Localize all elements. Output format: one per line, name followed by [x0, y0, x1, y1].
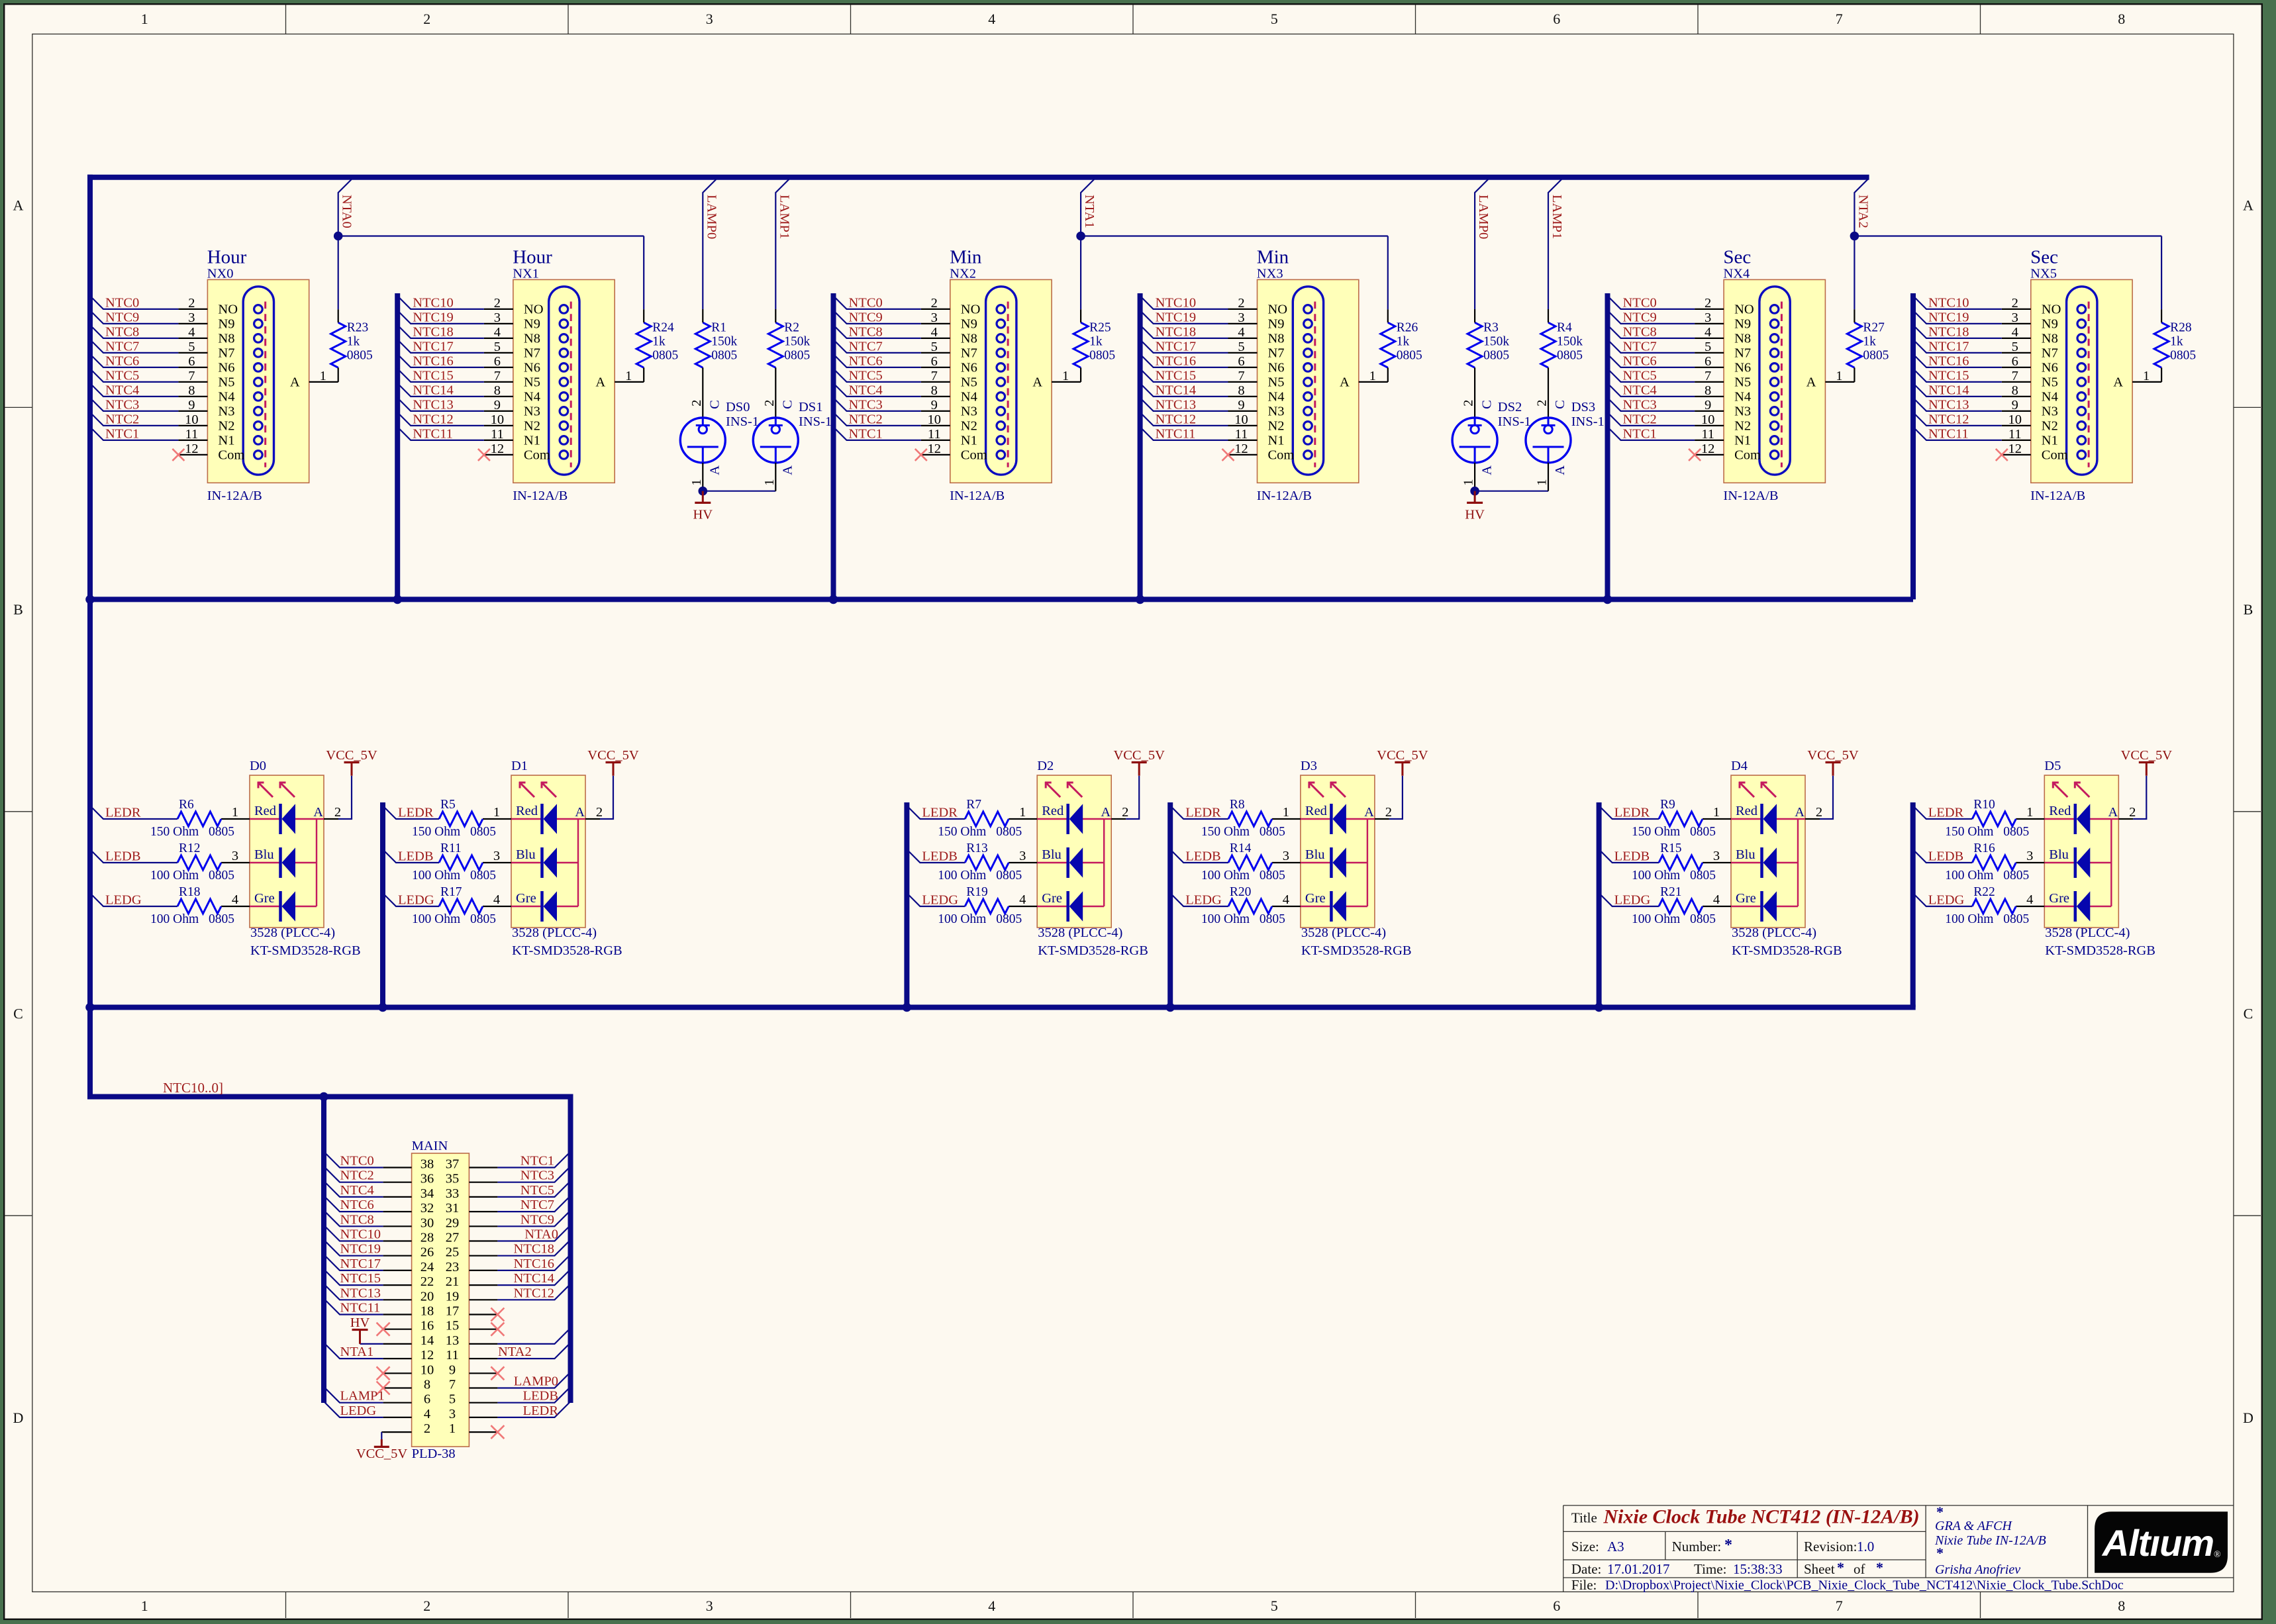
wire MAIN right: [497, 1328, 570, 1344]
wire MAIN left: [324, 1387, 383, 1403]
wire MAIN left: [324, 1152, 383, 1168]
svg-text:100 Ohm: 100 Ohm: [938, 869, 986, 883]
junction: [1603, 595, 1612, 604]
svg-text:NTC12: NTC12: [1156, 412, 1197, 426]
resistor R5 150 Ohm 0805: [412, 798, 496, 839]
svg-text:16: 16: [421, 1319, 434, 1333]
neon lamp DS2 INS-1: [1452, 400, 1531, 491]
svg-text:IN-12A/B: IN-12A/B: [513, 489, 568, 503]
wires bus fan to D1 resistors: [383, 806, 439, 906]
svg-text:R10: R10: [1973, 798, 1995, 812]
svg-text:LAMP1: LAMP1: [1550, 195, 1564, 239]
wire MAIN left: [324, 1255, 383, 1270]
svg-text:9: 9: [494, 398, 501, 412]
svg-text:PLD-38: PLD-38: [412, 1447, 456, 1461]
svg-text:0805: 0805: [2003, 869, 2029, 883]
svg-text:0805: 0805: [209, 912, 234, 926]
svg-text:N1: N1: [1268, 434, 1285, 448]
svg-text:NTC6: NTC6: [105, 354, 139, 368]
svg-text:3: 3: [188, 310, 195, 325]
svg-text:NTA2: NTA2: [498, 1345, 532, 1359]
title block lines: [1563, 1505, 2234, 1592]
svg-text:7: 7: [188, 369, 195, 383]
svg-text:1: 1: [1369, 369, 1376, 383]
svg-text:6: 6: [494, 354, 501, 369]
svg-text:N6: N6: [1734, 361, 1751, 375]
svg-text:3: 3: [706, 11, 713, 27]
svg-text:4: 4: [931, 325, 938, 340]
resistor R7 150 Ohm 0805: [938, 798, 1022, 839]
svg-text:IN-12A/B: IN-12A/B: [950, 489, 1005, 503]
wire MAIN right: [497, 1387, 570, 1403]
svg-text:NO: NO: [1734, 303, 1754, 317]
svg-text:2: 2: [931, 296, 938, 310]
svg-text:N7: N7: [218, 346, 234, 361]
junction: [829, 595, 838, 604]
svg-text:3528 (PLCC-4): 3528 (PLCC-4): [512, 926, 597, 940]
svg-text:100 Ohm: 100 Ohm: [938, 912, 986, 926]
resistor R19 100 Ohm 0805: [938, 885, 1022, 926]
wires bus fan to NX3: [1140, 296, 1228, 440]
svg-text:N9: N9: [218, 317, 234, 332]
svg-text:NTC6: NTC6: [849, 354, 883, 368]
svg-text:NTC0: NTC0: [340, 1154, 374, 1169]
svg-text:12: 12: [491, 442, 505, 456]
svg-text:VCC_5V: VCC_5V: [587, 748, 639, 763]
svg-text:1: 1: [141, 1598, 148, 1614]
svg-text:INS-1: INS-1: [1571, 414, 1605, 429]
svg-text:1: 1: [689, 479, 704, 485]
wire LAMP0 from top bus: [1475, 179, 1488, 309]
svg-text:NTC5: NTC5: [520, 1183, 554, 1198]
junction lamp anode: [1470, 487, 1479, 496]
svg-text:2: 2: [1122, 805, 1128, 820]
svg-text:34: 34: [421, 1186, 434, 1201]
svg-text:HV: HV: [350, 1315, 370, 1330]
svg-text:100 Ohm: 100 Ohm: [150, 912, 199, 926]
svg-text:Sec: Sec: [2030, 246, 2058, 267]
svg-text:9: 9: [931, 398, 938, 412]
svg-text:NTC0: NTC0: [849, 295, 883, 310]
svg-text:®: ®: [2214, 1550, 2221, 1560]
svg-text:150 Ohm: 150 Ohm: [1632, 825, 1680, 839]
svg-text:9: 9: [188, 398, 195, 412]
svg-text:LEDB: LEDB: [1928, 849, 1964, 864]
svg-text:LEDG: LEDG: [922, 893, 958, 908]
svg-text:NTC19: NTC19: [413, 310, 454, 324]
junction C/left: [85, 1003, 95, 1012]
wire anode to VCC_5V: [1820, 776, 1833, 819]
svg-text:5: 5: [1238, 340, 1244, 354]
svg-text:3: 3: [2012, 310, 2018, 325]
svg-text:Red: Red: [516, 804, 538, 818]
svg-text:Revision:: Revision:: [1804, 1539, 1857, 1554]
svg-text:NTC6: NTC6: [1623, 354, 1657, 368]
svg-text:R27: R27: [1863, 321, 1885, 335]
svg-text:A: A: [575, 805, 585, 820]
svg-text:0805: 0805: [996, 869, 1022, 883]
svg-text:NO: NO: [2042, 303, 2061, 317]
svg-text:NTC7: NTC7: [1623, 339, 1657, 354]
svg-text:11: 11: [446, 1348, 459, 1362]
svg-text:A3: A3: [1607, 1539, 1624, 1554]
wire NTA0 vertical + diagonal to top bus: [338, 179, 352, 309]
svg-text:Sheet: Sheet: [1804, 1561, 1835, 1577]
svg-text:R24: R24: [652, 321, 674, 335]
svg-text:NTC1: NTC1: [520, 1154, 554, 1169]
svg-text:Title: Title: [1571, 1509, 1597, 1525]
svg-text:9: 9: [1705, 398, 1711, 412]
svg-text:2: 2: [423, 11, 430, 27]
svg-text:NTC3: NTC3: [849, 397, 883, 412]
svg-text:LEDR: LEDR: [922, 806, 958, 820]
svg-text:N4: N4: [1268, 390, 1285, 405]
no-connect: [491, 1308, 504, 1321]
svg-text:NO: NO: [961, 303, 981, 317]
svg-text:3: 3: [706, 1598, 713, 1614]
svg-text:23: 23: [446, 1260, 460, 1274]
resistor R3 150k 0805: [1467, 309, 1509, 418]
svg-text:NTC1: NTC1: [849, 426, 883, 441]
svg-text:Com: Com: [524, 448, 550, 463]
svg-text:8: 8: [931, 383, 938, 398]
svg-text:NTC2: NTC2: [849, 412, 883, 426]
svg-text:NTC10: NTC10: [1156, 295, 1197, 310]
wire anode to NTA horizontal: [1387, 236, 1389, 310]
svg-text:LEDR: LEDR: [1928, 806, 1964, 820]
nixie tube connector NX4 (Sec, IN-12A/B): [1695, 246, 1854, 503]
svg-text:NTC7: NTC7: [105, 339, 139, 354]
wire anode to NTA horizontal: [643, 236, 644, 310]
bus NTC10..0 horizontal to MAIN: [87, 1094, 573, 1100]
svg-text:2: 2: [423, 1598, 430, 1614]
svg-text:R13: R13: [966, 841, 988, 855]
power port HV: [1465, 491, 1485, 522]
svg-text:NTC13: NTC13: [1928, 397, 1969, 412]
svg-text:4: 4: [988, 1598, 995, 1614]
svg-text:MAIN: MAIN: [412, 1139, 448, 1153]
svg-text:Gre: Gre: [1736, 891, 1756, 906]
resistor R9 150 Ohm 0805: [1632, 798, 1716, 839]
junction NTA0: [334, 232, 343, 241]
wire MAIN right: [497, 1269, 570, 1285]
svg-text:2: 2: [762, 400, 777, 406]
svg-text:N8: N8: [218, 332, 234, 346]
svg-text:100 Ohm: 100 Ohm: [150, 869, 199, 883]
svg-text:4: 4: [424, 1407, 430, 1421]
svg-text:NO: NO: [1268, 303, 1288, 317]
svg-text:N1: N1: [961, 434, 977, 448]
svg-text:Red: Red: [254, 804, 276, 818]
svg-text:N7: N7: [1268, 346, 1285, 361]
bus vertical LED fan: [904, 802, 909, 1008]
bus vertical nixie fan: [1138, 293, 1143, 599]
svg-text:5: 5: [188, 340, 195, 354]
wire MAIN right: [497, 1196, 570, 1212]
svg-text:N3: N3: [961, 405, 977, 419]
svg-text:VCC_5V: VCC_5V: [356, 1447, 408, 1461]
svg-text:29: 29: [446, 1216, 460, 1230]
no-connect: [377, 1366, 390, 1380]
svg-text:D:\Dropbox\Project\Nixie_Clock: D:\Dropbox\Project\Nixie_Clock\PCB_Nixie…: [1605, 1578, 2124, 1593]
junction NTA1: [1076, 232, 1085, 241]
svg-text:Blu: Blu: [1305, 847, 1325, 862]
svg-text:30: 30: [421, 1216, 434, 1230]
svg-text:1: 1: [2026, 805, 2033, 820]
svg-text:Gre: Gre: [516, 891, 536, 906]
svg-text:DS0: DS0: [726, 400, 750, 414]
svg-text:8: 8: [1705, 383, 1711, 398]
no-connect pin 12 NX1: [478, 449, 490, 461]
svg-text:10: 10: [2008, 412, 2022, 427]
power port VCC_5V: [1807, 748, 1859, 776]
svg-text:1k: 1k: [1397, 335, 1410, 349]
svg-text:NTC8: NTC8: [105, 324, 139, 339]
wire MAIN right: [497, 1240, 570, 1256]
svg-text:NTC14: NTC14: [1928, 383, 1969, 397]
svg-text:R1: R1: [711, 321, 726, 335]
svg-text:33: 33: [446, 1186, 460, 1201]
svg-text:0805: 0805: [1690, 912, 1716, 926]
svg-text:Min: Min: [1257, 246, 1289, 267]
svg-text:36: 36: [421, 1172, 434, 1186]
svg-text:32: 32: [421, 1201, 434, 1216]
svg-text:NTC19: NTC19: [340, 1242, 381, 1257]
zone numbers bottom: [141, 1598, 2126, 1614]
bus vertical nixie fan: [1910, 293, 1916, 599]
svg-text:R11: R11: [440, 841, 462, 855]
svg-text:IN-12A/B: IN-12A/B: [1257, 489, 1312, 503]
svg-text:0805: 0805: [2003, 825, 2029, 839]
resistor R23 1k 0805: [331, 309, 373, 382]
svg-text:10: 10: [1234, 412, 1248, 427]
svg-text:5: 5: [494, 340, 501, 354]
svg-text:KT-SMD3528-RGB: KT-SMD3528-RGB: [512, 943, 622, 958]
svg-text:2: 2: [188, 296, 195, 310]
svg-text:LAMP0: LAMP0: [704, 195, 718, 239]
wire MAIN right: [497, 1372, 570, 1388]
svg-text:4: 4: [988, 11, 995, 27]
svg-text:Altıum: Altıum: [2101, 1522, 2214, 1564]
svg-text:LAMP1: LAMP1: [340, 1389, 385, 1404]
svg-text:0805: 0805: [1260, 869, 1285, 883]
svg-text:A: A: [1553, 465, 1567, 475]
svg-text:Blu: Blu: [1042, 847, 1062, 862]
svg-text:D4: D4: [1731, 759, 1748, 773]
RGB LED D5 KT-SMD3528-RGB: [2016, 759, 2155, 958]
svg-text:5: 5: [1271, 1598, 1278, 1614]
bus row B horizontal: [87, 597, 1913, 602]
svg-text:NTC3: NTC3: [520, 1169, 554, 1183]
svg-text:NX5: NX5: [2030, 267, 2057, 281]
svg-text:N2: N2: [1268, 419, 1285, 434]
svg-text:6: 6: [188, 354, 195, 369]
svg-text:N5: N5: [961, 375, 977, 390]
svg-text:D2: D2: [1037, 759, 1054, 773]
junction: [1136, 595, 1145, 604]
svg-text:NTC4: NTC4: [105, 383, 139, 397]
resistor R11 100 Ohm 0805: [412, 841, 496, 883]
svg-text:150 Ohm: 150 Ohm: [938, 825, 986, 839]
svg-text:4: 4: [2026, 892, 2033, 907]
svg-text:2: 2: [1535, 400, 1550, 406]
svg-text:0805: 0805: [784, 349, 810, 363]
svg-text:INS-1: INS-1: [726, 414, 759, 429]
wire NTA2 vertical + diagonal to top bus: [1854, 179, 1867, 309]
svg-text:8: 8: [188, 383, 195, 398]
svg-text:NTC0: NTC0: [105, 295, 139, 310]
svg-text:150k: 150k: [784, 335, 810, 349]
svg-text:0805: 0805: [209, 825, 234, 839]
svg-text:11: 11: [491, 427, 504, 442]
svg-text:7: 7: [1836, 11, 1843, 27]
svg-text:D0: D0: [250, 759, 266, 773]
svg-text:VCC_5V: VCC_5V: [1807, 748, 1859, 763]
svg-text:N9: N9: [2042, 317, 2058, 332]
junction: [1165, 1003, 1175, 1012]
svg-text:7: 7: [1705, 369, 1711, 383]
junction: [393, 595, 402, 604]
resistor R13 100 Ohm 0805: [938, 841, 1022, 883]
wires bus fan to D4 resistors: [1599, 806, 1659, 906]
svg-text:10: 10: [185, 412, 199, 427]
wire MAIN left: [324, 1240, 383, 1256]
svg-text:1k: 1k: [652, 335, 666, 349]
svg-text:3: 3: [449, 1407, 456, 1421]
svg-text:5: 5: [1705, 340, 1711, 354]
svg-text:7: 7: [449, 1378, 456, 1392]
svg-text:NTC10: NTC10: [340, 1227, 381, 1242]
svg-text:NTA2: NTA2: [1855, 195, 1870, 228]
svg-text:0805: 0805: [2003, 912, 2029, 926]
svg-text:NTA1: NTA1: [340, 1345, 374, 1359]
svg-text:0805: 0805: [1690, 869, 1716, 883]
svg-text:NX3: NX3: [1257, 267, 1283, 281]
no-connect pin 12 NX0: [172, 449, 184, 461]
svg-text:A: A: [1806, 375, 1816, 390]
svg-text:N8: N8: [2042, 332, 2058, 346]
svg-text:KT-SMD3528-RGB: KT-SMD3528-RGB: [1038, 943, 1148, 958]
svg-text:NTC15: NTC15: [413, 368, 454, 383]
svg-text:NTC4: NTC4: [849, 383, 883, 397]
svg-text:R18: R18: [179, 885, 201, 899]
svg-text:D: D: [13, 1409, 24, 1426]
wire MAIN right: [497, 1284, 570, 1300]
svg-text:1k: 1k: [2170, 335, 2183, 349]
svg-text:LEDR: LEDR: [398, 806, 434, 820]
title block info column: [1934, 1504, 2046, 1577]
svg-text:NTC5: NTC5: [105, 368, 139, 383]
svg-text:37: 37: [446, 1157, 460, 1172]
svg-text:19: 19: [446, 1289, 460, 1304]
neon lamp DS1 INS-1: [753, 400, 832, 491]
svg-text:NTC14: NTC14: [413, 383, 454, 397]
resistor R8 150 Ohm 0805: [1201, 798, 1285, 839]
svg-text:3: 3: [493, 849, 500, 863]
svg-text:C: C: [1553, 400, 1567, 409]
svg-text:4: 4: [493, 892, 500, 907]
svg-text:4: 4: [494, 325, 501, 340]
svg-text:Gre: Gre: [1042, 891, 1062, 906]
svg-text:N3: N3: [2042, 405, 2058, 419]
resistor R10 150 Ohm 0805: [1945, 798, 2029, 839]
connector MAIN PLD-38: [383, 1139, 498, 1461]
svg-text:VCC_5V: VCC_5V: [326, 748, 377, 763]
svg-text:HV: HV: [1465, 508, 1485, 522]
svg-text:10: 10: [928, 412, 942, 427]
svg-text:150k: 150k: [1483, 335, 1509, 349]
svg-text:NTC2: NTC2: [1623, 412, 1657, 426]
junction B/left: [85, 595, 95, 604]
svg-text:4: 4: [1713, 892, 1720, 907]
svg-text:D: D: [2243, 1409, 2253, 1426]
svg-text:4: 4: [1019, 892, 1026, 907]
svg-text:12: 12: [421, 1348, 434, 1362]
svg-text:NTC2: NTC2: [105, 412, 139, 426]
svg-text:*: *: [1837, 1559, 1844, 1576]
resistor R27 1k 0805: [1847, 309, 1889, 382]
svg-text:31: 31: [446, 1201, 460, 1216]
svg-text:KT-SMD3528-RGB: KT-SMD3528-RGB: [1301, 943, 1412, 958]
svg-text:6: 6: [931, 354, 938, 369]
svg-text:N6: N6: [524, 361, 540, 375]
svg-text:1: 1: [2143, 369, 2150, 383]
svg-text:GRA & AFCH: GRA & AFCH: [1935, 1519, 2012, 1533]
svg-text:150k: 150k: [711, 335, 737, 349]
zone letters right: [2243, 197, 2253, 1426]
svg-text:3528 (PLCC-4): 3528 (PLCC-4): [1038, 926, 1122, 940]
svg-text:N2: N2: [961, 419, 977, 434]
svg-text:100 Ohm: 100 Ohm: [1632, 869, 1680, 883]
wire lamp anodes: [1475, 491, 1548, 492]
svg-text:3: 3: [1283, 849, 1289, 863]
svg-text:NX0: NX0: [207, 267, 234, 281]
svg-text:8: 8: [2012, 383, 2018, 398]
wire MAIN right: [497, 1343, 570, 1359]
svg-text:N7: N7: [524, 346, 540, 361]
wire MAIN left: [324, 1299, 383, 1315]
svg-text:11: 11: [1235, 427, 1248, 442]
svg-text:NTA1: NTA1: [1082, 195, 1097, 228]
wire MAIN right: [497, 1255, 570, 1270]
svg-text:N4: N4: [1734, 390, 1751, 405]
power port VCC_5V: [326, 748, 377, 776]
svg-text:A: A: [313, 805, 323, 820]
svg-text:3528 (PLCC-4): 3528 (PLCC-4): [2045, 926, 2130, 940]
no-connect pin 12 NX5: [1996, 449, 2008, 461]
no-connect: [377, 1382, 390, 1395]
svg-text:11: 11: [1701, 427, 1714, 442]
wires bus fan to NX0: [90, 296, 178, 440]
svg-text:LEDR: LEDR: [105, 806, 141, 820]
svg-text:DS3: DS3: [1571, 400, 1595, 414]
svg-text:NTC5: NTC5: [849, 368, 883, 383]
RGB LED D2 KT-SMD3528-RGB: [1009, 759, 1148, 958]
svg-text:NTC2: NTC2: [340, 1169, 374, 1183]
wire MAIN left: [324, 1225, 383, 1241]
svg-text:N7: N7: [2042, 346, 2058, 361]
svg-text:LEDG: LEDG: [340, 1404, 377, 1418]
svg-text:HV: HV: [693, 508, 713, 522]
wire MAIN left: [324, 1167, 383, 1182]
svg-text:21: 21: [446, 1274, 460, 1289]
svg-text:NX1: NX1: [513, 267, 539, 281]
svg-text:Nixie Tube IN-12A/B: Nixie Tube IN-12A/B: [1934, 1533, 2046, 1548]
svg-text:20: 20: [421, 1289, 434, 1304]
wire anode to VCC_5V: [338, 776, 352, 819]
svg-text:100 Ohm: 100 Ohm: [1201, 869, 1250, 883]
svg-text:N8: N8: [1734, 332, 1751, 346]
